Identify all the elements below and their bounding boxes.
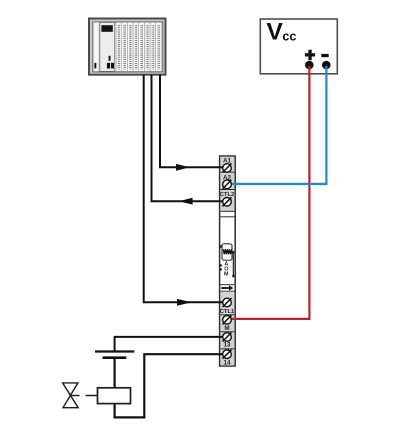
- terminal 13: [223, 333, 232, 349]
- mode arrow: [221, 285, 233, 290]
- svg-text:CTL1: CTL1: [220, 309, 235, 315]
- terminal CTL2: [220, 192, 235, 206]
- mechanical link valve to coil (dashed): [71, 395, 98, 397]
- wire terminal CTL2 to PLC input: [152, 75, 224, 205]
- wire Vcc minus to terminal A2 (blue): [231, 66, 327, 184]
- svg-text:14: 14: [223, 359, 231, 366]
- svg-text:M: M: [224, 271, 229, 277]
- wire battery minus to solenoid coil: [113, 358, 115, 388]
- svg-text:cc: cc: [282, 30, 296, 44]
- battery B1: [95, 352, 134, 358]
- wire terminal 14 to solenoid coil: [115, 354, 224, 417]
- power supply Vcc: [260, 19, 337, 74]
- wire PLC output to terminal A1: [160, 75, 223, 171]
- terminal 14: [223, 350, 232, 367]
- terminal CTL1: [220, 298, 235, 315]
- wire battery plus to terminal 13: [115, 337, 224, 351]
- svg-text:M: M: [224, 325, 229, 332]
- terminal A2: [223, 174, 232, 189]
- terminal M: [223, 315, 232, 332]
- wire PLC output to terminal CTL1: [144, 75, 224, 306]
- relay mode labels A O M: [224, 262, 229, 278]
- solenoid coil Y1: [98, 388, 131, 404]
- Vcc minus terminal: [321, 54, 330, 69]
- svg-text:13: 13: [223, 342, 231, 349]
- wire Vcc plus to terminal M (red): [231, 66, 310, 319]
- terminal A1: [223, 158, 232, 173]
- relay terminal module K1 body: [220, 156, 236, 366]
- svg-text:V: V: [267, 19, 284, 46]
- valve V1: [63, 383, 79, 408]
- Vcc plus terminal: [305, 50, 315, 70]
- PLC controller U1: [89, 19, 166, 75]
- relay coil symbol: [220, 244, 235, 277]
